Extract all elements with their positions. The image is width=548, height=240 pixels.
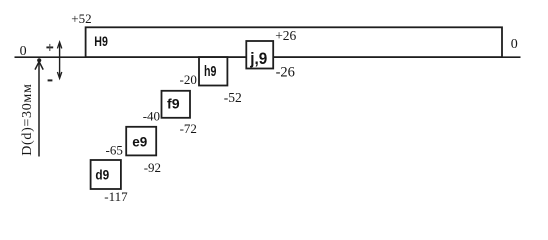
svg-text:+26: +26 xyxy=(275,28,296,43)
wire zero line xyxy=(15,56,521,58)
tolerance zone d9 xyxy=(91,160,121,189)
svg-text:-92: -92 xyxy=(144,160,161,175)
minus sign xyxy=(48,79,53,81)
svg-text:-117: -117 xyxy=(104,189,128,204)
tolerance zone js9 xyxy=(246,41,273,69)
svg-text:e9: e9 xyxy=(132,133,147,149)
dimension line D(d) xyxy=(35,58,43,156)
svg-text:h9: h9 xyxy=(204,64,216,80)
svg-text:-20: -20 xyxy=(180,72,197,87)
svg-text:-65: -65 xyxy=(106,143,123,158)
svg-text:-26: -26 xyxy=(276,64,295,80)
svg-text:-40: -40 xyxy=(143,108,160,123)
tolerance zone H9 xyxy=(86,27,502,57)
svg-text:d9: d9 xyxy=(95,166,109,182)
plus sign xyxy=(46,44,53,51)
svg-text:-72: -72 xyxy=(180,121,197,136)
tolerance zone h9 xyxy=(199,57,227,85)
tolerance zone e9 xyxy=(126,127,156,156)
svg-text:0: 0 xyxy=(511,37,518,52)
svg-text:D(d)=30мм: D(d)=30мм xyxy=(20,83,35,155)
tolerance zone f9 xyxy=(162,91,191,118)
svg-text:-52: -52 xyxy=(224,90,242,105)
svg-text:f9: f9 xyxy=(167,96,180,112)
svg-text:+52: +52 xyxy=(71,11,91,26)
svg-text:j,9: j,9 xyxy=(249,49,267,68)
svg-text:H9: H9 xyxy=(94,34,108,49)
svg-text:0: 0 xyxy=(20,44,27,59)
double arrow xyxy=(57,42,61,78)
